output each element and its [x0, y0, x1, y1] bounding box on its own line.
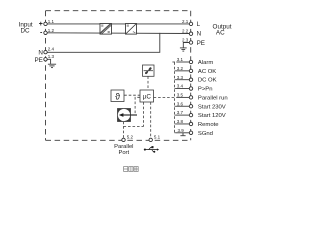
converter U2 (DC/AC inverter) — [126, 24, 137, 35]
arrow into relay — [122, 114, 137, 116]
terminal 3.3 — [189, 78, 192, 81]
fan symbol — [144, 67, 153, 74]
svg-text:PE: PE — [34, 57, 42, 64]
wire fan to uC — [147, 76, 149, 90]
caption glyph blobs (CJK caption) — [124, 167, 139, 172]
terminal 2.1 (L out) — [189, 22, 192, 25]
right terminal row wires 3.1-3.9 — [176, 62, 189, 133]
svg-text:3.9: 3.9 — [178, 128, 185, 133]
svg-text:3.1: 3.1 — [177, 57, 184, 62]
wire uC to terminal 3.5 — [154, 96, 177, 98]
signal row names — [198, 60, 228, 137]
ground symbol (input PE) — [48, 63, 56, 65]
svg-text:P>Pn: P>Pn — [198, 87, 213, 93]
wire: input PE branch to ground — [47, 59, 51, 64]
svg-text:2.4: 2.4 — [48, 47, 55, 52]
svg-text:AC: AC — [216, 29, 225, 36]
svg-text:2.3: 2.3 — [182, 38, 189, 43]
svg-text:3.2: 3.2 — [177, 66, 184, 71]
dashed enclosure border left — [45, 11, 47, 141]
svg-text:3.6: 3.6 — [177, 101, 184, 106]
wire junction horizontal — [124, 126, 144, 128]
svg-text:PE: PE — [197, 40, 205, 47]
terminal numbers left — [48, 19, 55, 59]
wire uC down to junction — [143, 102, 145, 126]
wire: output PE branch to ground — [183, 43, 189, 48]
converter U1 (DC/DC) — [100, 24, 112, 35]
svg-text:Start 120V: Start 120V — [198, 113, 226, 119]
svg-text:-: - — [40, 29, 43, 36]
U2 =/~ marks — [127, 25, 136, 33]
terminal 1.1 — [44, 22, 47, 25]
dashed enclosure border top — [46, 10, 191, 12]
wire theta to uC — [124, 94, 140, 96]
svg-text:SGnd: SGnd — [198, 131, 213, 137]
terminal 3.2 — [189, 69, 192, 72]
svg-text:ϑ: ϑ — [115, 91, 120, 101]
svg-text:5.1: 5.1 — [154, 134, 161, 139]
svg-text:+: + — [39, 21, 43, 28]
terminal 1.3 (PE in) — [44, 58, 47, 61]
terminal 2.3 (PE out) — [189, 41, 192, 44]
svg-text:1.2: 1.2 — [48, 28, 55, 33]
svg-text:3.3: 3.3 — [177, 75, 184, 80]
terminal 2.2 (N out) — [189, 32, 192, 35]
svg-text:N: N — [197, 31, 202, 38]
svg-text:2.2: 2.2 — [182, 29, 189, 34]
U1 DC marks — [101, 25, 110, 33]
terminal 1.2 — [44, 31, 47, 34]
svg-text:DC: DC — [20, 28, 30, 35]
svg-text:3.5: 3.5 — [177, 93, 184, 98]
fan M1 — [143, 65, 155, 76]
wire uC down to 5.1 — [150, 102, 152, 138]
terminal 2.4 (N in) — [44, 50, 47, 53]
dashed enclosure border bottom — [46, 139, 191, 141]
terminal 3.6 — [189, 105, 192, 108]
microcontroller uC — [140, 90, 154, 102]
terminal 3.1 — [189, 60, 192, 63]
dashed enclosure border right — [190, 11, 192, 141]
terminal 5.1 — [149, 138, 152, 141]
svg-text:µC: µC — [143, 94, 152, 101]
svg-text:Start 230V: Start 230V — [198, 104, 226, 110]
svg-text:3.8: 3.8 — [177, 119, 184, 124]
svg-text:DC OK: DC OK — [198, 78, 217, 84]
svg-text:2.1: 2.1 — [182, 19, 189, 24]
wire uC to relay (down branch) — [135, 97, 140, 114]
USB symbol — [144, 146, 159, 153]
svg-text:Port: Port — [118, 150, 129, 156]
svg-text:5.2: 5.2 — [127, 135, 134, 140]
terminal 3.8 — [189, 122, 192, 125]
svg-text:1.3: 1.3 — [48, 54, 55, 59]
wire: N return drop from rail to input N — [47, 33, 160, 52]
svg-text:Parallel run: Parallel run — [198, 95, 228, 101]
terminal circles — [44, 22, 193, 141]
wire relay box down to 5.2 — [123, 122, 125, 139]
terminal 5.2 — [122, 138, 125, 141]
svg-text:3.4: 3.4 — [177, 84, 184, 89]
dashed signal wires — [124, 62, 177, 138]
svg-text:N: N — [38, 50, 43, 57]
numbers 5.2 / 5.1 — [127, 134, 161, 139]
terminal 3.4 — [189, 87, 192, 90]
ground symbol (output PE) — [180, 47, 187, 49]
svg-text:1.1: 1.1 — [48, 19, 55, 24]
dashed bus at right terminal rows — [174, 62, 176, 132]
svg-text:Alarm: Alarm — [198, 60, 213, 66]
stub at row 3.1 — [172, 61, 176, 63]
svg-text:Remote: Remote — [198, 122, 219, 128]
svg-text:3.7: 3.7 — [177, 110, 184, 115]
SGnd symbol at 3.9 — [180, 133, 185, 136]
terminal 3.5 — [189, 96, 192, 99]
svg-text:AC OK: AC OK — [198, 69, 216, 75]
svg-text:L: L — [197, 21, 201, 28]
terminal 3.9 — [189, 131, 192, 134]
terminal 3.7 — [189, 113, 192, 116]
wire: - DC rail from 1.2 to output N — [46, 32, 190, 35]
bus-to-row corner stubs — [175, 71, 177, 133]
bypass relay box (circle with arrow) — [118, 109, 138, 122]
wire: + DC rail from 1.1 to output L — [46, 23, 190, 25]
terminal numbers right top — [177, 19, 189, 133]
temperature sensor (theta) — [111, 90, 124, 102]
